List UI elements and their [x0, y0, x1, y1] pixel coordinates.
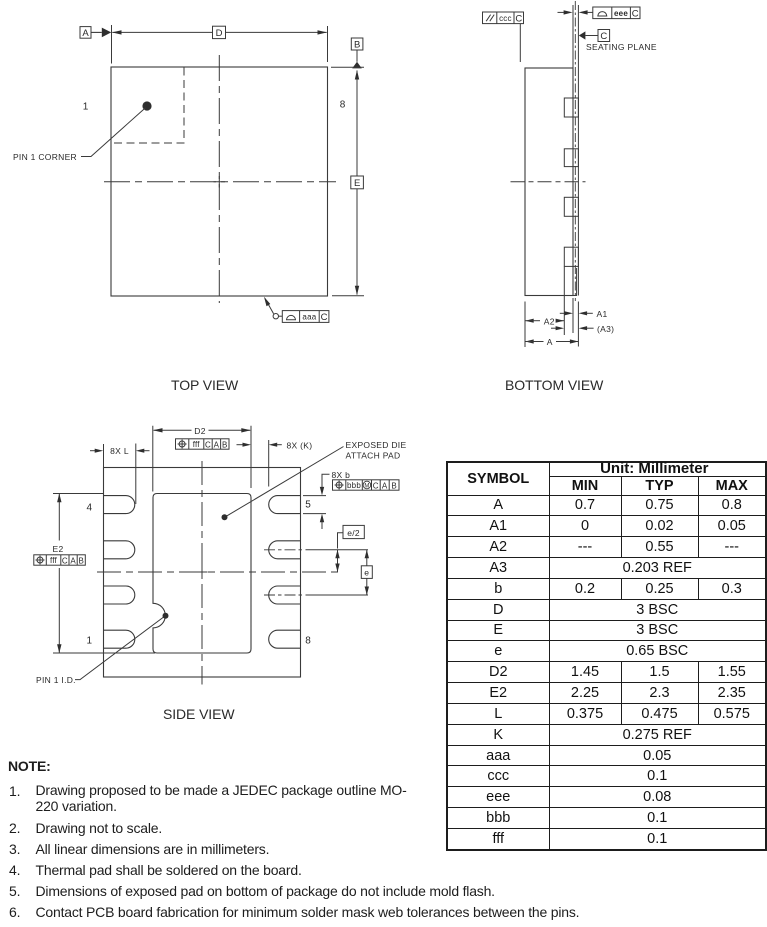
- lead tip / seating line: [577, 5, 579, 296]
- 8X L extension lines: [104, 444, 136, 505]
- svg-text:A: A: [82, 28, 89, 39]
- pin 1 id leader: [75, 616, 166, 680]
- notes: [8, 758, 51, 774]
- dimension D2: [154, 429, 251, 431]
- label E boxed: [351, 176, 364, 189]
- svg-text:D2: D2: [194, 426, 205, 436]
- svg-text:e: e: [364, 568, 369, 578]
- svg-text:5: 5: [305, 500, 311, 511]
- position symbol: [37, 557, 43, 563]
- svg-text:A: A: [547, 337, 553, 347]
- E2 extension lines: [53, 494, 155, 654]
- svg-text:PIN 1 CORNER: PIN 1 CORNER: [13, 152, 77, 162]
- dimension A2: [525, 319, 534, 323]
- vertical centerline (side view): [201, 461, 203, 685]
- center cross: [214, 176, 226, 188]
- pad 3 (left): [104, 541, 135, 559]
- lead 4 (profile): [564, 247, 578, 266]
- svg-text:EXPOSED DIE: EXPOSED DIE: [346, 440, 407, 450]
- svg-text:ATTACH PAD: ATTACH PAD: [346, 450, 401, 460]
- svg-text:B: B: [222, 440, 228, 449]
- dimension table: [446, 461, 767, 851]
- profile of surface symbol: [286, 315, 296, 319]
- b dimension extension lines: [303, 496, 326, 514]
- eee measure arrows: [558, 11, 564, 13]
- pad 6 centerline: [264, 549, 302, 551]
- e/2 dimension arrows: [337, 550, 339, 572]
- label D boxed: [213, 26, 226, 38]
- package body outline (side view): [104, 468, 301, 678]
- position symbol: [336, 482, 342, 488]
- svg-text:A1: A1: [597, 309, 608, 319]
- svg-text:(A3): (A3): [597, 324, 614, 334]
- svg-text:B: B: [354, 40, 360, 51]
- eee feature control frame: [593, 7, 640, 19]
- body edge extension above: [572, 5, 574, 68]
- aaa leader circle: [273, 314, 278, 319]
- svg-text:eee: eee: [614, 9, 628, 18]
- horizontal centerline: [104, 181, 336, 183]
- dimension 8X (K) arrows: [237, 444, 243, 446]
- svg-text:A2: A2: [544, 316, 555, 326]
- svg-text:C: C: [205, 440, 211, 449]
- E2 dimension line: [58, 494, 60, 654]
- svg-text:1: 1: [83, 102, 89, 113]
- e label box: [361, 566, 372, 579]
- pad 2 (left): [104, 586, 135, 604]
- datum A symbol: [80, 27, 91, 39]
- svg-text:e/2: e/2: [347, 528, 360, 538]
- svg-text:aaa: aaa: [302, 313, 316, 322]
- M circle modifier: [363, 481, 371, 489]
- ccc leader line: [519, 24, 521, 62]
- svg-text:C: C: [632, 8, 639, 19]
- pin 1 index dot: [142, 101, 151, 110]
- pin 1 corner dashed zone: [111, 68, 184, 144]
- svg-text:fff: fff: [193, 440, 201, 449]
- leader PIN 1 CORNER: [81, 108, 146, 157]
- svg-text:A: A: [382, 481, 388, 490]
- dimension A: [525, 339, 534, 343]
- svg-text:E: E: [354, 178, 360, 189]
- dimension D2 extension lines: [153, 426, 251, 492]
- svg-text:E2: E2: [53, 544, 64, 554]
- aaa leader arrow: [265, 299, 274, 314]
- svg-text:8: 8: [340, 100, 346, 111]
- fff feature control frame (top): [176, 439, 230, 449]
- center cross (side view): [197, 567, 208, 578]
- ccc feature control frame: [483, 12, 524, 24]
- dimension 8X L: [90, 450, 95, 452]
- svg-text:fff: fff: [50, 556, 58, 565]
- svg-text:8X b: 8X b: [332, 470, 351, 480]
- svg-text:SEATING PLANE: SEATING PLANE: [586, 42, 657, 52]
- package body (side profile): [525, 68, 573, 296]
- view label SIDE VIEW: [163, 706, 234, 722]
- 8X b leader and arrows: [322, 474, 330, 487]
- svg-text:A: A: [214, 440, 220, 449]
- svg-text:B: B: [79, 556, 85, 565]
- svg-text:C: C: [373, 481, 379, 490]
- svg-text:8: 8: [305, 636, 311, 647]
- pad 7 (right): [269, 586, 301, 604]
- vertical centerline: [218, 55, 220, 303]
- extension lines below body: [525, 267, 578, 347]
- datum C symbol: [579, 31, 586, 39]
- svg-text:4: 4: [87, 503, 93, 514]
- dimension D line with arrows: [112, 31, 326, 33]
- lead 2 (profile): [564, 149, 578, 167]
- svg-text:D: D: [216, 28, 223, 39]
- svg-text:PIN 1 I.D.: PIN 1 I.D.: [36, 675, 76, 685]
- dimension E line with arrows: [356, 71, 358, 295]
- bbb feature control frame: [333, 480, 400, 490]
- svg-text:A: A: [70, 556, 76, 565]
- view label TOP VIEW: [171, 377, 238, 393]
- svg-text:8X (K): 8X (K): [287, 440, 313, 450]
- svg-text:C: C: [321, 312, 328, 323]
- package body outline (top view): [111, 67, 328, 296]
- seating plane centerline: [574, 1, 576, 301]
- exposed die attach pad with pin1 notch: [153, 494, 251, 654]
- dimension E extension lines: [331, 67, 364, 295]
- svg-text:C: C: [600, 31, 607, 42]
- datum B symbol: [351, 38, 363, 50]
- e dimension arrows: [366, 550, 368, 595]
- svg-text:1: 1: [87, 636, 93, 647]
- fff feature control frame (left): [34, 555, 86, 565]
- svg-text:M: M: [364, 484, 369, 490]
- exposed pad leader: [225, 447, 344, 518]
- bottom edge tab: [573, 268, 577, 296]
- horizontal centerline (side profile): [511, 181, 586, 183]
- pad 7 centerline: [264, 594, 302, 596]
- aaa feature control frame: [282, 311, 329, 323]
- pad 4 (left): [104, 496, 135, 514]
- dimension A1: [560, 312, 565, 314]
- e/2 leader: [338, 533, 344, 549]
- dimension D extension lines: [112, 25, 328, 64]
- lead 3 (profile): [564, 197, 578, 216]
- svg-text:8X L: 8X L: [110, 446, 129, 456]
- pad 1 (left): [104, 630, 135, 648]
- svg-text:C: C: [62, 556, 68, 565]
- pad 6 (right): [269, 541, 301, 559]
- view label BOTTOM VIEW: [505, 377, 603, 393]
- e/2 label box: [343, 525, 364, 538]
- position symbol: [179, 441, 185, 447]
- svg-text:B: B: [391, 481, 397, 490]
- svg-text:C: C: [515, 13, 522, 24]
- svg-text:ccc: ccc: [499, 14, 512, 23]
- lead 1 (profile): [564, 98, 578, 117]
- pad 5 (right): [269, 496, 301, 514]
- dimension A3: [551, 327, 556, 329]
- dimension 8X (K) extension: [268, 440, 270, 487]
- svg-text:bbb: bbb: [347, 481, 361, 490]
- parallelism symbol: [486, 15, 494, 22]
- horizontal centerline (side view): [97, 571, 342, 573]
- profile of surface symbol: [597, 12, 607, 16]
- pad 8 (right): [269, 630, 301, 648]
